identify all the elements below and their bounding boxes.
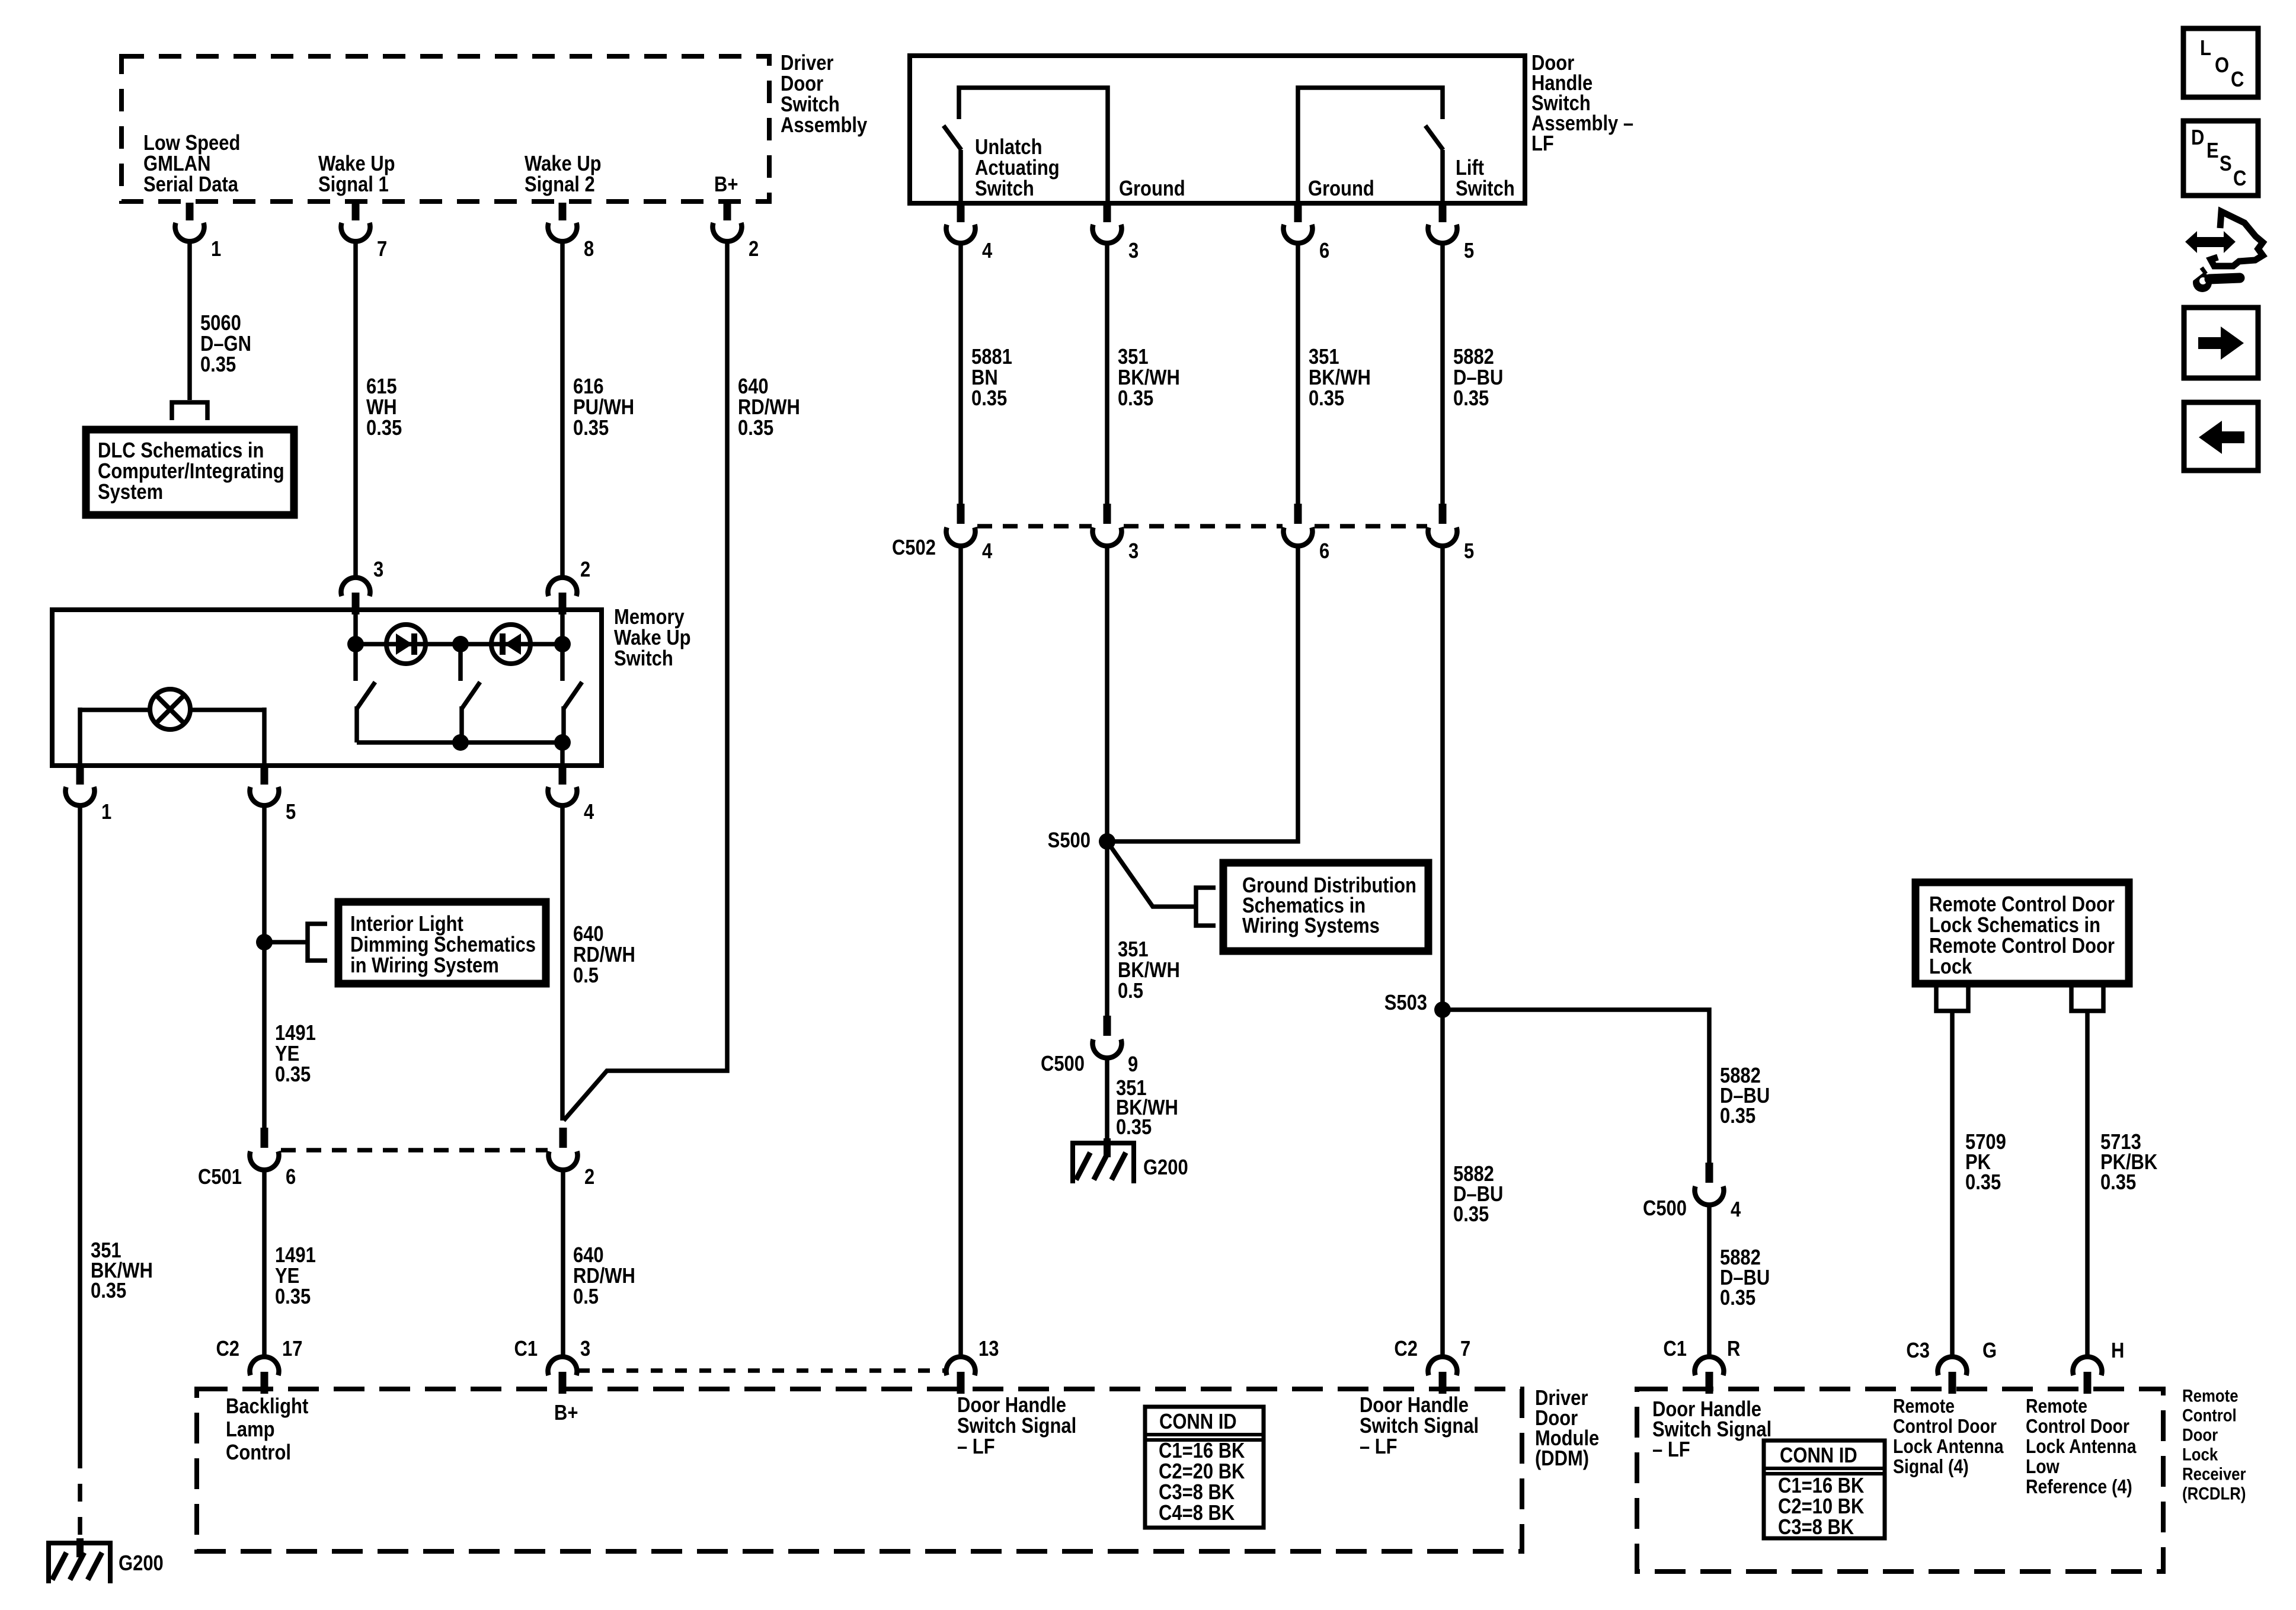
vehicle check icon [2211,212,2263,266]
svg-text:0.5: 0.5 [573,1285,599,1309]
wrench icon [2193,273,2212,292]
svg-text:Control: Control [2182,1406,2237,1425]
svg-text:Assembly: Assembly [781,114,868,137]
svg-text:Unlatch: Unlatch [975,136,1042,159]
svg-text:Ground: Ground [1308,177,1374,201]
svg-text:4: 4 [982,239,993,263]
svg-text:Door Handle: Door Handle [957,1394,1066,1417]
svg-text:C2=20 BK: C2=20 BK [1159,1460,1245,1484]
svg-text:0.35: 0.35 [1453,387,1489,411]
svg-text:Remote: Remote [1893,1395,1955,1417]
lift switch blade [1425,126,1443,150]
svg-text:Interior Light: Interior Light [350,913,463,936]
svg-text:4: 4 [1731,1198,1741,1222]
wire 5882 D-BU [1440,244,1445,504]
junction at diode row right [554,636,571,652]
forward arrow icon box [2184,308,2258,378]
svg-text:(DDM): (DDM) [1535,1447,1589,1471]
pin 6 connector (Ground) [1294,204,1302,222]
svg-text:CONN ID: CONN ID [1159,1410,1237,1434]
wire 5881 BN to DDM pin 13 [958,546,963,1356]
splice S503 [1434,1001,1451,1018]
svg-text:0.35: 0.35 [200,353,236,377]
svg-text:Door Handle: Door Handle [1360,1394,1469,1417]
wire 351 BK/WH (pin6) [1296,244,1300,504]
svg-text:5: 5 [286,801,296,824]
connector C502 pin 5 [1439,504,1447,524]
svg-text:0.35: 0.35 [1118,387,1153,411]
svg-text:4: 4 [982,540,993,564]
svg-text:C501: C501 [198,1166,242,1189]
svg-text:3: 3 [1128,239,1139,263]
LOC icon box [2183,28,2258,97]
svg-text:S503: S503 [1384,991,1427,1015]
wire 5060 D-GN from pin 1 [187,242,192,400]
wire 351 BK/WH to S500 [1107,546,1298,841]
memory switch pin 2 connector [548,578,577,596]
svg-text:G: G [1982,1339,1997,1363]
svg-text:Low: Low [2026,1455,2060,1478]
svg-text:3: 3 [580,1337,590,1361]
svg-text:RD/WH: RD/WH [738,396,800,420]
svg-text:0.35: 0.35 [1720,1105,1755,1128]
svg-text:Ground: Ground [1119,177,1185,201]
pin 7 connector (Wake Up Signal 1) [352,203,360,220]
switch riser at x=777 [459,706,464,742]
connector C500 pin 4 [1706,1163,1713,1183]
svg-text:YE: YE [275,1265,299,1288]
svg-text:351: 351 [1118,938,1149,962]
dashed wire to G200 [78,1451,82,1538]
svg-text:0.35: 0.35 [573,417,609,440]
svg-text:Receiver: Receiver [2182,1464,2246,1484]
backlight lamp symbol [150,689,190,729]
tap to ground distribution [1107,841,1196,907]
lamp wire left [80,708,150,712]
svg-text:615: 615 [366,375,397,399]
Interior Light Dimming reference box [338,902,546,984]
connector C502 pin 3 [1104,504,1111,524]
svg-text:C2=10 BK: C2=10 BK [1778,1495,1864,1519]
svg-text:C1=16 BK: C1=16 BK [1778,1474,1864,1498]
svg-text:6: 6 [1319,239,1329,263]
wire 351 BK/WH from memory pin 1 [78,806,82,1451]
wire 1491 YE to DDM [262,1170,267,1356]
svg-text:0.35: 0.35 [275,1063,311,1087]
svg-text:Switch: Switch [781,93,840,117]
svg-text:C502: C502 [892,536,936,560]
svg-text:6: 6 [1319,540,1329,564]
Remote Control Door Lock Receiver (RCDLR) box [1637,1389,2163,1571]
C502 dashed line segment 3 [1315,524,1427,529]
svg-text:Low Speed: Low Speed [143,132,240,155]
pin 1 connector (Low Speed GMLAN Serial Data) [186,203,194,220]
svg-text:0.35: 0.35 [1965,1171,2001,1195]
svg-text:LF: LF [1531,132,1554,156]
Remote Control Door Lock Schematics reference box [1916,882,2129,984]
svg-text:B+: B+ [554,1401,578,1425]
svg-text:Actuating: Actuating [975,156,1060,180]
fork to DLC box [172,402,207,420]
svg-text:2: 2 [580,558,590,582]
svg-text:BN: BN [971,366,998,390]
splice S500 [1099,833,1115,850]
svg-text:5060: 5060 [200,312,241,335]
svg-text:Lift: Lift [1456,156,1484,180]
wire 616 PU/WH from pin 8 [560,242,565,578]
DESC icon box [2183,121,2258,196]
svg-text:5882: 5882 [1453,345,1494,369]
svg-text:C500: C500 [1643,1197,1687,1221]
svg-text:13: 13 [978,1337,999,1361]
RCDLR pin C1-R connector [1695,1357,1724,1375]
Driver Door Module (DDM) box [197,1389,1522,1551]
DDM pin C1-3 connector [548,1357,577,1375]
memory pin 1 connector [76,767,84,785]
diode D2 [491,625,530,664]
connector C502 pin 6 [1294,504,1302,524]
unlatch switch wire to pin 4 [958,150,963,203]
RCDLR pin H connector [2073,1357,2102,1375]
svg-text:S500: S500 [1048,829,1091,853]
connector C501 pin 6 [261,1128,268,1148]
svg-text:Control Door: Control Door [1893,1415,1997,1438]
svg-text:– LF: – LF [1360,1435,1398,1459]
svg-text:C4=8 BK: C4=8 BK [1159,1502,1235,1525]
svg-text:C3=8 BK: C3=8 BK [1159,1481,1235,1505]
wire 640 RD/WH from pin 2 (B+) with jog to C501 [564,242,727,1121]
svg-text:4: 4 [584,801,594,824]
svg-text:Switch: Switch [1456,177,1515,201]
svg-text:DLC Schematics in: DLC Schematics in [98,439,264,463]
wire 351 BK/WH (pin3) [1105,244,1109,504]
unlatch switch blade [944,126,961,150]
tap bracket [308,924,327,961]
svg-text:Wiring Systems: Wiring Systems [1242,914,1380,938]
svg-text:C: C [2233,167,2246,191]
svg-text:C1=16 BK: C1=16 BK [1159,1439,1245,1463]
svg-text:Remote: Remote [2182,1386,2239,1406]
lift switch wire to pin 5 [1440,150,1445,203]
svg-text:2: 2 [749,238,759,261]
svg-text:640: 640 [738,375,769,399]
diode row wire [356,642,562,646]
svg-text:1: 1 [101,801,111,824]
switch blade at x=600 [357,682,375,709]
junction at diode row middle [452,636,469,652]
svg-text:Signal 1: Signal 1 [318,173,389,197]
svg-text:D: D [2191,126,2204,150]
svg-text:Door: Door [781,72,823,96]
lamp wire right [190,708,264,712]
svg-text:– LF: – LF [957,1435,995,1459]
svg-text:0.5: 0.5 [1118,980,1143,1003]
diode D1 [386,625,426,664]
svg-text:0.35: 0.35 [275,1285,311,1309]
svg-text:RD/WH: RD/WH [573,943,635,967]
svg-text:Switch Signal: Switch Signal [1360,1414,1479,1438]
ground G200 bottom left [46,1541,113,1545]
svg-text:Lock: Lock [2182,1445,2218,1464]
svg-text:8: 8 [584,238,594,261]
memory pin 5 connector [261,767,268,785]
wire 5882 D-BU branch to C500-4 [1443,1010,1709,1163]
svg-text:Serial Data: Serial Data [143,173,238,197]
forward arrow [2198,337,2222,349]
svg-text:C1: C1 [1663,1337,1687,1361]
svg-text:Driver: Driver [781,52,833,75]
svg-text:351: 351 [1309,345,1339,369]
wire 5709 PK [1950,1011,1955,1356]
svg-text:Switch: Switch [614,647,673,671]
junction tap to interior light dimming [256,934,273,950]
back arrow [2221,431,2244,443]
svg-text:1491: 1491 [275,1022,316,1045]
svg-text:Lamp: Lamp [226,1418,275,1442]
wire 351 BK/WH to C500-9 [1105,546,1109,1016]
tap bracket ground distribution [1196,888,1216,926]
memory pin 4 connector [559,767,567,785]
svg-text:0.35: 0.35 [738,417,773,440]
svg-text:5881: 5881 [971,345,1012,369]
dotted link C1-3 to pin 13 [578,1368,945,1373]
svg-text:System: System [98,481,163,504]
ground G200 middle [1070,1141,1136,1145]
junction at diode row left [347,636,364,652]
svg-text:351: 351 [1118,345,1149,369]
svg-text:GMLAN: GMLAN [143,152,210,176]
switch common rail [357,740,562,745]
wire 615 WH from pin 7 [353,242,358,578]
svg-text:0.35: 0.35 [971,387,1007,411]
connector C500 pin 9 [1104,1016,1111,1036]
svg-text:Backlight: Backlight [226,1395,308,1419]
svg-text:Lock: Lock [1929,955,1972,979]
svg-text:0.35: 0.35 [1720,1286,1755,1310]
svg-text:5: 5 [1464,540,1474,564]
switch riser at x=600 [354,706,359,742]
Memory Wake Up Switch box [52,610,602,766]
wire 5882 D-BU to DDM C2-7 [1440,546,1445,1356]
svg-text:C1: C1 [514,1337,538,1361]
DDM pin C2-7 connector [1428,1357,1457,1375]
wire 5713 PK/BK [2085,1011,2090,1356]
svg-text:3: 3 [373,558,383,582]
wire 1491 YE from memory pin 5 [262,806,267,1128]
fork antenna low reference [2071,987,2103,1011]
svg-text:17: 17 [282,1337,302,1361]
svg-text:Signal (4): Signal (4) [1893,1455,1969,1478]
svg-text:7: 7 [377,238,387,261]
C502 dashed line segment 1 [977,524,1092,529]
svg-text:Remote Control Door: Remote Control Door [1929,934,2115,958]
svg-text:Door: Door [2182,1425,2218,1445]
svg-text:Lock Antenna: Lock Antenna [1893,1435,2004,1458]
svg-text:Wake Up: Wake Up [318,152,395,176]
svg-text:2: 2 [584,1166,594,1189]
svg-text:– LF: – LF [1652,1438,1690,1462]
svg-text:O: O [2215,54,2229,78]
svg-text:640: 640 [573,923,604,946]
back arrow icon box [2184,402,2258,470]
pin 5 connector (Lift Switch) [1439,204,1447,222]
svg-text:BK/WH: BK/WH [1118,366,1180,390]
junction rail middle [452,734,469,751]
pin 8 connector (Wake Up Signal 2) [559,203,567,220]
DDM pin 13 connector [946,1357,976,1375]
unlatch actuating switch [959,88,1108,203]
connector C501 pin 2 [559,1128,567,1148]
pin 4 connector (Unlatch Actuating Switch) [957,204,965,222]
svg-text:C: C [2231,68,2244,92]
svg-text:CONN ID: CONN ID [1780,1444,1857,1468]
svg-text:Control: Control [226,1441,291,1465]
wire 5882 D-BU to RCDLR C1-R [1707,1205,1712,1356]
C501 in-line connector dashed line [281,1148,548,1153]
svg-text:in Wiring System: in Wiring System [350,954,499,978]
svg-text:Memory: Memory [614,606,685,629]
CONN ID table (RCDLR) [1764,1441,1885,1538]
svg-text:D–GN: D–GN [200,332,251,356]
svg-text:6: 6 [286,1166,296,1189]
svg-text:Reference (4): Reference (4) [2026,1475,2132,1498]
tap wire [264,940,308,945]
svg-text:0.35: 0.35 [1116,1116,1152,1140]
lamp left drop to pin 1 [78,708,82,766]
connector C502 pin 4 [957,504,965,524]
svg-text:PU/WH: PU/WH [573,396,634,420]
svg-text:1: 1 [211,238,221,261]
Door Handle Switch Assembly - LF box [910,56,1525,203]
svg-text:E: E [2207,139,2219,163]
svg-text:C500: C500 [1041,1052,1085,1076]
svg-text:YE: YE [275,1042,299,1066]
svg-text:3: 3 [1128,540,1139,564]
svg-text:S: S [2220,152,2232,176]
svg-text:R: R [1727,1337,1740,1361]
svg-text:C3: C3 [1906,1339,1930,1363]
pin 3 connector (Ground) [1104,204,1111,222]
svg-text:Remote Control Door: Remote Control Door [1929,893,2115,917]
svg-text:0.35: 0.35 [1453,1203,1489,1227]
svg-text:640: 640 [573,1244,604,1267]
double arrow [2195,237,2225,247]
svg-text:RD/WH: RD/WH [573,1265,635,1288]
svg-text:616: 616 [573,375,604,399]
junction rail right [554,734,571,751]
svg-text:Control Door: Control Door [2026,1415,2129,1438]
middle switch wire drop [458,644,463,681]
wire inside memory box from pin 3 [353,612,358,681]
svg-text:Computer/Integrating: Computer/Integrating [98,460,284,484]
svg-text:0.35: 0.35 [2100,1171,2136,1195]
svg-text:Lock Antenna: Lock Antenna [2026,1435,2137,1458]
switch blade at x=949 [564,682,582,709]
svg-text:0.35: 0.35 [91,1279,126,1303]
svg-text:Remote: Remote [2026,1395,2087,1417]
pin 2 connector (B+) [724,203,731,220]
svg-text:G200: G200 [1143,1156,1188,1180]
RCDLR pin C3-G connector [1938,1357,1967,1375]
wire 5881 BN [958,244,963,504]
svg-text:B+: B+ [714,173,738,197]
CONN ID table (DDM) [1145,1407,1264,1528]
svg-text:Dimming Schematics: Dimming Schematics [350,933,536,957]
switch riser at x=949 [561,706,566,742]
svg-text:H: H [2111,1339,2124,1363]
DDM pin C2-17 connector [250,1357,279,1375]
svg-text:Switch: Switch [975,177,1034,201]
svg-text:Signal 2: Signal 2 [525,173,595,197]
svg-text:C2: C2 [1394,1337,1418,1361]
svg-text:L: L [2200,37,2211,60]
svg-text:0.35: 0.35 [366,417,402,440]
svg-text:Wake Up: Wake Up [614,626,691,650]
svg-text:G200: G200 [119,1552,164,1576]
svg-text:9: 9 [1128,1053,1138,1077]
svg-text:C2: C2 [216,1337,239,1361]
lamp right drop to pin 5 [262,708,267,766]
svg-text:Lock Schematics in: Lock Schematics in [1929,914,2100,937]
memory switch pin 3 connector [341,578,370,596]
Driver Door Switch Assembly box [121,56,769,201]
wire 640 RD/WH 0.5 from memory pin 4 [560,806,565,1121]
wire inside memory box from pin 2 [560,612,565,681]
switch blade at x=777 [462,682,480,709]
svg-text:5: 5 [1464,239,1474,263]
svg-text:Wake Up: Wake Up [525,152,602,176]
wire rail to pin 4 [560,742,565,766]
wire 351 BK/WH to G200 [1105,1058,1109,1140]
svg-text:(RCDLR): (RCDLR) [2182,1484,2246,1503]
svg-text:BK/WH: BK/WH [1118,959,1180,982]
fork antenna signal [1936,987,1968,1011]
lift switch [1298,88,1443,203]
svg-text:0.35: 0.35 [1309,387,1344,411]
C502 dashed line segment 2 [1124,524,1283,529]
svg-text:BK/WH: BK/WH [1309,366,1371,390]
DLC Schematics reference box [86,430,294,515]
wire 640 RD/WH to DDM [561,1170,565,1356]
svg-text:Switch Signal: Switch Signal [957,1414,1076,1438]
svg-text:C3=8 BK: C3=8 BK [1778,1516,1854,1539]
svg-text:7: 7 [1460,1337,1470,1361]
svg-text:1491: 1491 [275,1244,316,1267]
svg-text:0.5: 0.5 [573,964,599,988]
svg-text:D–BU: D–BU [1453,366,1503,390]
svg-text:WH: WH [366,396,397,420]
Ground Distribution reference box [1223,863,1428,951]
